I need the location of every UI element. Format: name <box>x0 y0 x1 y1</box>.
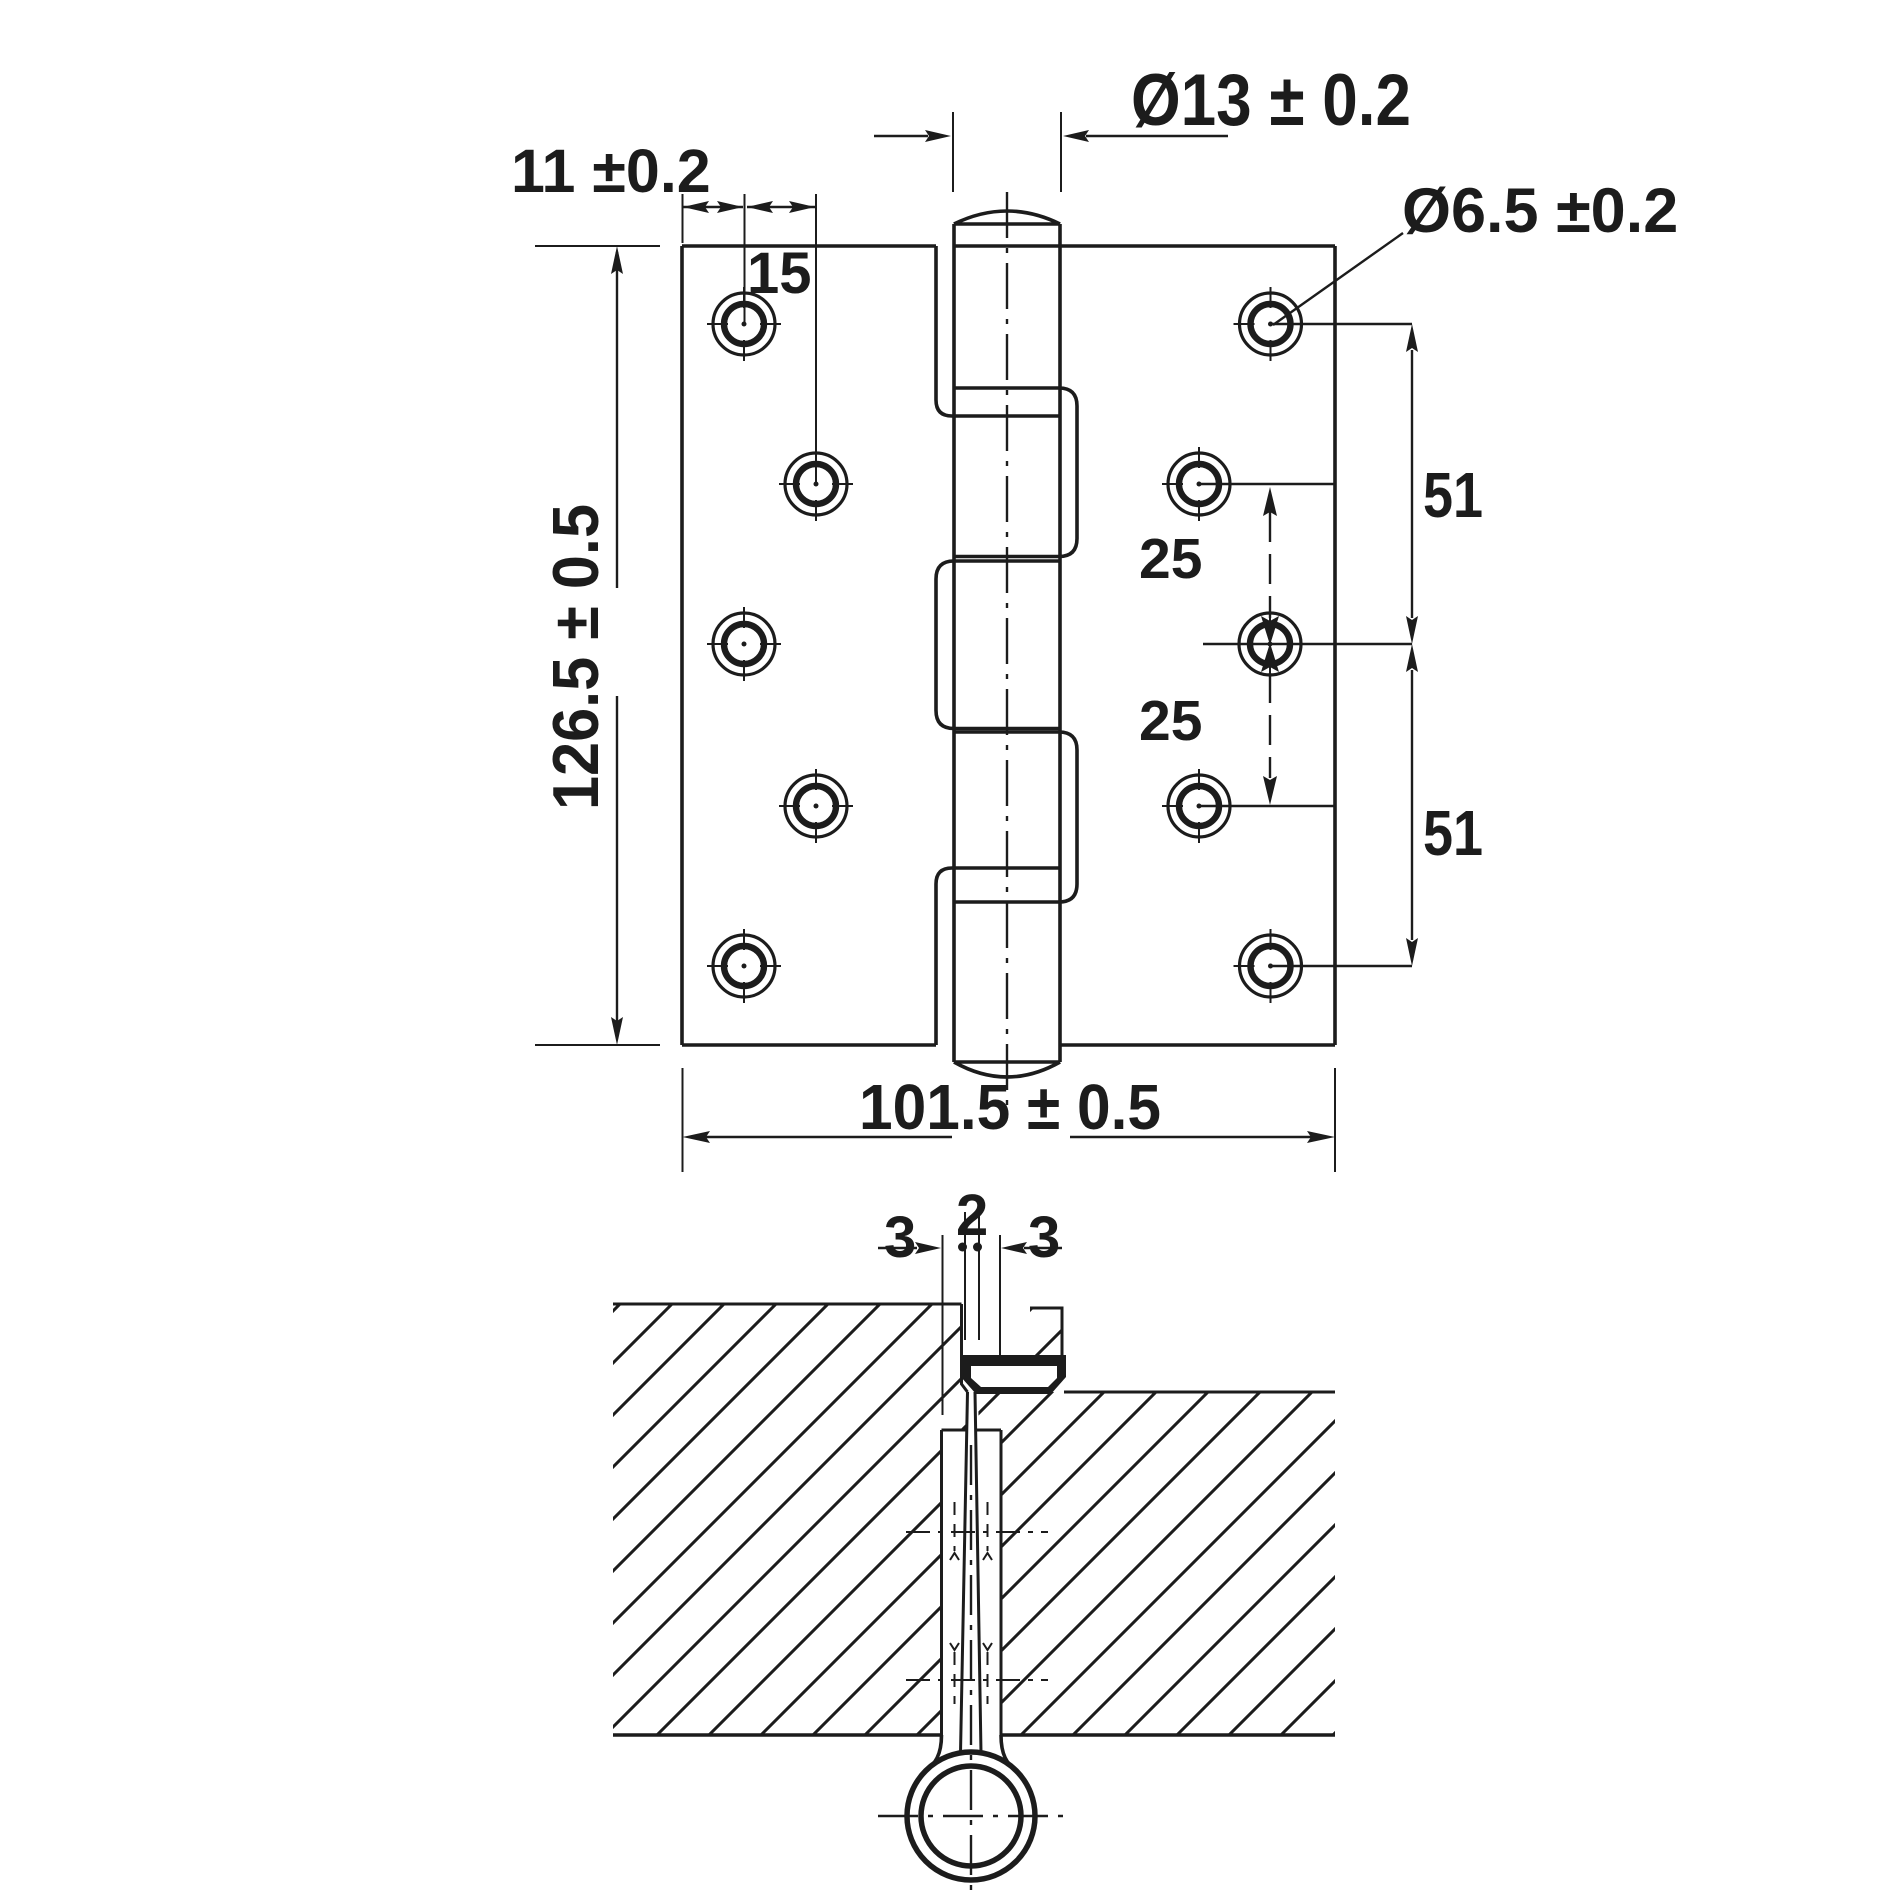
dim 11 line and arrows <box>683 206 815 208</box>
dim 51/51 line <box>1411 350 1413 940</box>
door block hatching <box>613 1304 968 1735</box>
DIMENSIONS top view <box>535 112 1418 1172</box>
door top edge <box>613 1303 962 1306</box>
hinge pin bottom end <box>954 1062 1060 1077</box>
dim 25 upper <box>1269 512 1271 618</box>
knuckle cap cavity <box>971 1366 1057 1387</box>
svg-text:11 ±0.2: 11 ±0.2 <box>511 137 711 205</box>
mortise slot left wall <box>940 1430 943 1735</box>
frame stop step <box>1030 1308 1062 1358</box>
screw hole marker lower <box>906 1679 1048 1681</box>
door face edge <box>962 1304 968 1392</box>
svg-text:3: 3 <box>1028 1205 1060 1270</box>
hole R4 <box>1162 769 1236 843</box>
hole L4 <box>779 769 853 843</box>
mortise slot top edges <box>942 1429 1002 1432</box>
knuckle sleeve segment 4 (right leaf) <box>954 732 1077 902</box>
screw holes <box>707 287 1308 1003</box>
svg-text:Ø6.5 ±0.2: Ø6.5 ±0.2 <box>1402 176 1678 246</box>
left leaf knuckle curl bottom <box>936 868 1060 1045</box>
pin centerline <box>1006 192 1008 1105</box>
hinge pin top cap dome <box>954 211 1060 224</box>
bottom surface edge <box>613 1733 1335 1737</box>
dim 126.5 line <box>616 252 618 1038</box>
pin ring outer <box>907 1752 1035 1880</box>
dim Ø13 arrows <box>874 135 1228 137</box>
section dim 2 dots <box>958 1243 967 1252</box>
hole L2 <box>779 447 853 521</box>
dim 101.5 arrowheads <box>683 1131 1336 1143</box>
dim 101.5 extension lines <box>683 1068 1336 1172</box>
knuckle sleeve segment 3 (left leaf) <box>936 561 1060 729</box>
svg-text:Ø13 ± 0.2: Ø13 ± 0.2 <box>1131 60 1411 141</box>
hinge pin right edge <box>1058 224 1062 1062</box>
left leaf knuckle curl top <box>936 246 1060 416</box>
hole R3 <box>1233 607 1307 681</box>
svg-text:25: 25 <box>1139 689 1202 753</box>
knuckle cap section (black) <box>961 1355 1066 1394</box>
right dims extension lines <box>1199 324 1412 966</box>
frame top edge <box>1064 1391 1335 1394</box>
hole L5 <box>707 929 781 1003</box>
section dim extension lines <box>943 1212 1001 1415</box>
right leaf plate outline <box>954 246 1335 1045</box>
SECTION VIEW <box>613 1183 1335 1900</box>
svg-text:51: 51 <box>1423 797 1483 869</box>
leader line Ø6.5 <box>1273 233 1403 325</box>
left leaf plate outline <box>682 246 936 1045</box>
section dim arrows <box>878 1247 1062 1249</box>
svg-text:51: 51 <box>1423 459 1483 531</box>
dim 126.5 arrowheads <box>611 246 623 1045</box>
mortise slot right wall <box>1000 1430 1003 1735</box>
svg-text:126.5 ± 0.5: 126.5 ± 0.5 <box>539 504 612 810</box>
pin ring inner <box>921 1766 1021 1866</box>
hole R1 <box>1234 287 1308 361</box>
dim 126.5 extension ticks <box>535 246 660 1045</box>
dim 101.5 line <box>706 1136 1311 1138</box>
dim 51/51 arrowheads <box>1406 324 1418 966</box>
dim 11 extension lines <box>683 194 817 484</box>
hole R5 <box>1234 929 1308 1003</box>
dimension texts <box>511 60 1678 1143</box>
dim 25 lower <box>1269 673 1271 778</box>
knuckle sleeve segment 2 (right leaf) <box>954 388 1077 557</box>
dim Ø13 extension lines <box>953 112 1061 192</box>
frame block hatching <box>978 1392 1335 1735</box>
hole R2 <box>1162 447 1236 521</box>
knuckle neck curves <box>926 1735 1016 1770</box>
svg-text:25: 25 <box>1139 527 1202 591</box>
hole L3 <box>707 607 781 681</box>
screw hole marker upper <box>906 1531 1048 1533</box>
hinge pin left edge <box>952 224 956 1062</box>
hole L1 <box>707 287 781 361</box>
svg-text:3: 3 <box>884 1205 916 1270</box>
hinge leaf pair in slot <box>961 1392 982 1753</box>
ring centerlines <box>970 1445 972 1900</box>
svg-text:15: 15 <box>747 241 812 306</box>
svg-text:2: 2 <box>956 1183 988 1248</box>
frame stop corner hatching <box>1030 1308 1062 1358</box>
svg-text:101.5 ± 0.5: 101.5 ± 0.5 <box>859 1071 1161 1143</box>
